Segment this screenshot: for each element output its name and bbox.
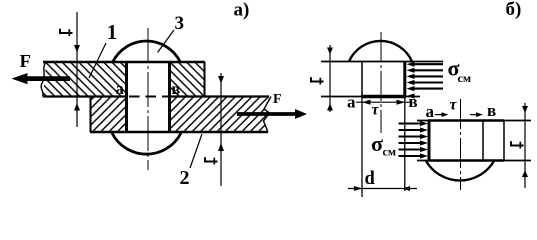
tau dimension line (356, 101, 410, 103)
rivet centerline (147, 28, 149, 170)
plate 1 top edge (43, 61, 205, 64)
svg-text:см: см (458, 71, 472, 85)
label t (311, 77, 324, 84)
svg-text:а: а (426, 102, 435, 121)
arrowhead down (218, 76, 224, 84)
plate top line (321, 61, 443, 63)
svg-text:а: а (347, 93, 356, 112)
svg-text:2: 2 (180, 167, 190, 189)
plate interface solid left (43, 95, 127, 97)
hole left edge (361, 62, 363, 97)
hole left edge thick (428, 120, 431, 161)
centerline (460, 99, 462, 190)
arrowhead up (522, 170, 528, 177)
extension line right (404, 97, 406, 192)
svg-text:в: в (409, 92, 418, 111)
plate bottom line (417, 160, 531, 162)
plate bottom thick segment (428, 159, 504, 162)
arrowhead up (327, 104, 333, 111)
plate interface dashed across rivet (129, 96, 169, 98)
dimension d line (348, 188, 417, 190)
svg-text:τ: τ (450, 97, 458, 114)
plate 2 right break edge (264, 97, 272, 133)
rivet top head dome (113, 41, 180, 62)
svg-text:d: d (365, 169, 376, 189)
svg-text:τ: τ (372, 102, 380, 119)
label t lower right (511, 141, 524, 148)
svg-text:б): б) (506, 0, 522, 20)
svg-text:3: 3 (175, 13, 185, 34)
rivet head dome bottom (426, 161, 494, 180)
rivet bottom head dome (112, 133, 181, 154)
label t bottom (205, 157, 218, 164)
dimension t line (329, 45, 331, 112)
centerline (380, 32, 382, 133)
plate top thick segment (428, 119, 504, 122)
hole right edge (403, 62, 406, 97)
bearing stress arrows (411, 64, 443, 88)
shear plane thick a-B (361, 95, 406, 99)
leader 3 (158, 30, 175, 53)
svg-text:F: F (273, 92, 282, 107)
rivet hole left edge (125, 62, 128, 132)
extension line left (361, 97, 363, 198)
svg-text:σ: σ (371, 131, 383, 156)
arrow a-tau (435, 114, 443, 116)
svg-text:F: F (20, 51, 32, 71)
hole right edge (482, 121, 484, 161)
dimension t line lower right (524, 103, 526, 188)
arrowhead up (74, 103, 80, 111)
dimension t line top-left (76, 12, 78, 127)
label t top-left (60, 29, 73, 36)
plate right edge (503, 121, 505, 161)
plate 2 left edge (90, 97, 92, 133)
arrowhead down (327, 48, 333, 55)
plate 2 bottom edge (90, 131, 268, 134)
svg-text:1: 1 (107, 20, 118, 44)
svg-text:см: см (383, 145, 397, 159)
plate 1 hatched body left of rivet (43, 63, 126, 96)
plate 1 left break edge (41, 62, 46, 97)
rivet head dome (349, 41, 412, 62)
arrow left (362, 100, 371, 105)
plate bottom line (321, 96, 420, 98)
force F left arrow (12, 73, 71, 84)
leader 1 (89, 43, 106, 78)
arrow right (397, 100, 406, 105)
plate 1 right edge (204, 62, 206, 97)
plate interface solid right (170, 95, 269, 97)
plate 2 hatched body right of rivet (170, 98, 271, 132)
arrow right (402, 186, 410, 191)
plate top line (417, 120, 531, 122)
arrow left (354, 186, 362, 191)
arrow tau-B (470, 114, 477, 116)
bearing stress arrows lower (399, 124, 422, 157)
force F right arrow (237, 109, 307, 119)
svg-text:а): а) (234, 0, 250, 20)
leader 2 (190, 134, 202, 168)
svg-text:а: а (116, 79, 124, 98)
svg-text:в: в (487, 101, 496, 120)
plate 2 hatched body left of rivet (91, 98, 126, 132)
plate 1 hatched body right of rivet (170, 63, 205, 96)
arrowhead down (74, 45, 80, 53)
dimension t line right of plate2 (220, 73, 222, 186)
arrowhead up (218, 143, 224, 151)
arrowhead down (522, 106, 528, 113)
rivet hole right edge (168, 62, 171, 132)
svg-text:в: в (172, 81, 181, 98)
